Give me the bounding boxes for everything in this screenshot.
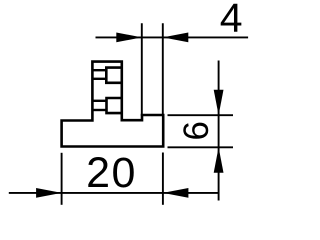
dim20 dimension line bbox=[9, 192, 219, 194]
upper thread inner line 1 bbox=[92, 69, 106, 71]
dim4 arrow left (points right) bbox=[116, 33, 142, 43]
lower thread inner line 2 bbox=[92, 109, 106, 111]
dim4 dimension line bbox=[96, 36, 249, 38]
svg-text:6: 6 bbox=[177, 121, 216, 140]
dim20 arrow right (points left) bbox=[163, 188, 189, 198]
dim6 extension line bottom bbox=[168, 146, 234, 148]
dim6 arrow bottom (points up) bbox=[214, 147, 224, 173]
dim6 extension line top bbox=[168, 114, 234, 116]
svg-text:4: 4 bbox=[220, 0, 243, 41]
lower thread box bbox=[107, 98, 122, 113]
dim20 extension line left bbox=[61, 153, 63, 205]
svg-text:20: 20 bbox=[86, 149, 137, 197]
dim6 arrow top (points down) bbox=[214, 90, 224, 116]
upper thread inner line 2 bbox=[92, 78, 106, 80]
dim4 extension line right bbox=[162, 23, 164, 114]
part outline (T-shaped base with right step) bbox=[62, 62, 164, 147]
lower thread inner line 1 bbox=[92, 100, 106, 102]
dim20 arrow left (points right) bbox=[36, 188, 62, 198]
dim6 dimension line bbox=[218, 61, 220, 201]
upper thread box bbox=[106, 68, 122, 83]
dim4 arrow right (points left) bbox=[163, 33, 189, 43]
dim20 extension line right bbox=[162, 153, 164, 205]
dim4 extension line left bbox=[141, 23, 143, 116]
